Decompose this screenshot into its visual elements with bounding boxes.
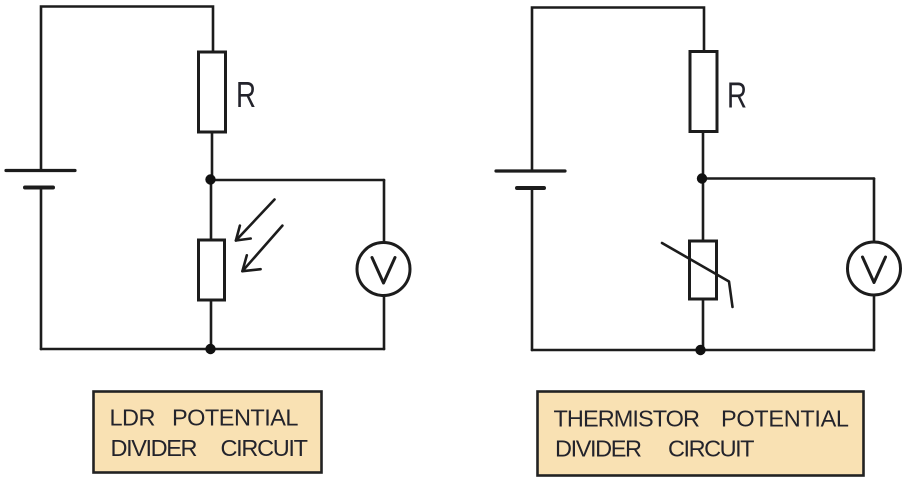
svg-text:POTENTIAL: POTENTIAL [172,405,299,431]
svg-text:CIRCUIT: CIRCUIT [221,435,309,461]
svg-text:CIRCUIT: CIRCUIT [668,436,755,462]
svg-text:R: R [727,75,747,116]
svg-text:DIVIDER: DIVIDER [111,435,198,461]
svg-text:LDR: LDR [110,405,156,431]
svg-text:R: R [236,74,256,115]
svg-text:THERMISTOR: THERMISTOR [554,406,701,432]
svg-text:DIVIDER: DIVIDER [555,436,642,462]
svg-text:POTENTIAL: POTENTIAL [721,406,849,432]
